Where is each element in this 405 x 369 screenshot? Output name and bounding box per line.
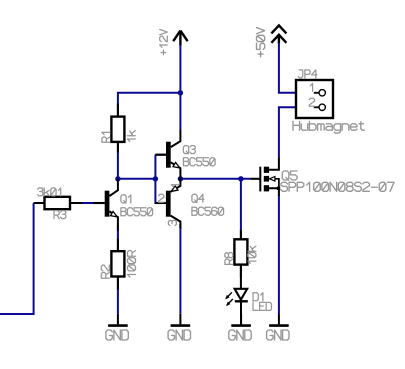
label JP4 — [298, 70, 316, 78]
transistor Q1 — [93, 179, 118, 231]
label GND1 — [106, 330, 128, 340]
resistor R2 — [111, 239, 124, 290]
supply +50V double chevron — [271, 25, 286, 43]
supply +12V arrow — [173, 31, 187, 46]
wire node down to R8 — [240, 179, 242, 240]
wire +50V to JP4 pin 1 — [279, 43, 315, 93]
label R1 — [102, 132, 110, 142]
wire R1 top to +12V column — [118, 93, 180, 117]
diode D1 LED — [225, 265, 248, 326]
wire R2 bottom to GND1 — [117, 277, 119, 314]
transistor Q4 — [155, 179, 180, 229]
connector JP4 — [296, 80, 333, 118]
label +50V — [257, 28, 265, 57]
label 100R — [128, 250, 136, 277]
label Q5 — [282, 171, 297, 180]
label GND4 — [267, 330, 289, 340]
label Q1 — [121, 195, 131, 203]
wire input from left edge to R3 — [0, 203, 34, 314]
junction dot output node — [178, 176, 183, 181]
resistor R8 — [234, 230, 247, 277]
label Q3 — [183, 146, 195, 154]
label +12V — [160, 29, 168, 54]
transistor Q3 — [155, 131, 180, 179]
label BC560 — [192, 207, 224, 215]
label 1k — [127, 131, 135, 142]
junction dot top node — [178, 90, 183, 95]
wire bases vertical — [155, 155, 166, 203]
resistor R1 — [111, 104, 124, 153]
wire Q5 source to GND4 — [278, 195, 280, 315]
ground GND2 — [171, 314, 191, 326]
resistor R3 — [34, 197, 82, 209]
junction dot bases node — [153, 176, 158, 181]
label BC550 Q1 — [121, 208, 153, 216]
label pin 2 Q4 — [159, 194, 164, 202]
wire R3 to Q1 base — [70, 202, 105, 204]
label 10k — [248, 246, 256, 263]
label LED — [253, 302, 271, 310]
label R2 — [101, 265, 109, 278]
wire output node to Q5 gate — [180, 178, 250, 180]
wire node to bases tee — [118, 178, 155, 180]
label pin 1 Q4 — [171, 185, 179, 187]
junction dot R8 node — [238, 176, 243, 181]
label R8 — [225, 253, 233, 265]
label SPP100N08S2-07 — [281, 182, 394, 191]
label GND2 — [168, 330, 190, 340]
ground GND1 — [108, 314, 128, 326]
wire Q1 emitter to R2 — [117, 225, 119, 251]
label D1 — [253, 293, 263, 301]
label Hubmagnet — [293, 121, 364, 133]
label pin 3 Q4 — [168, 220, 176, 225]
ground GND4 — [269, 315, 289, 326]
label GND3 — [229, 330, 251, 340]
wire JP4 pin 2 to Q5 drain — [279, 107, 315, 158]
wire +12V column vertical — [179, 45, 181, 131]
mosfet Q5 — [251, 158, 281, 196]
label 3k01 — [38, 188, 61, 196]
ground GND3 — [231, 314, 251, 326]
label R3 — [54, 211, 66, 219]
wire Q4 collector to GND2 — [179, 224, 181, 314]
wire Q3 base stub — [155, 154, 166, 156]
junction dot Q1 collector node — [115, 176, 120, 181]
label pin 2 JP4 — [309, 98, 314, 106]
label BC550 Q3 — [183, 158, 215, 166]
wire R1 bottom to node — [117, 142, 119, 179]
label Q4 — [192, 194, 204, 202]
label pin 1 JP4 — [310, 83, 312, 91]
